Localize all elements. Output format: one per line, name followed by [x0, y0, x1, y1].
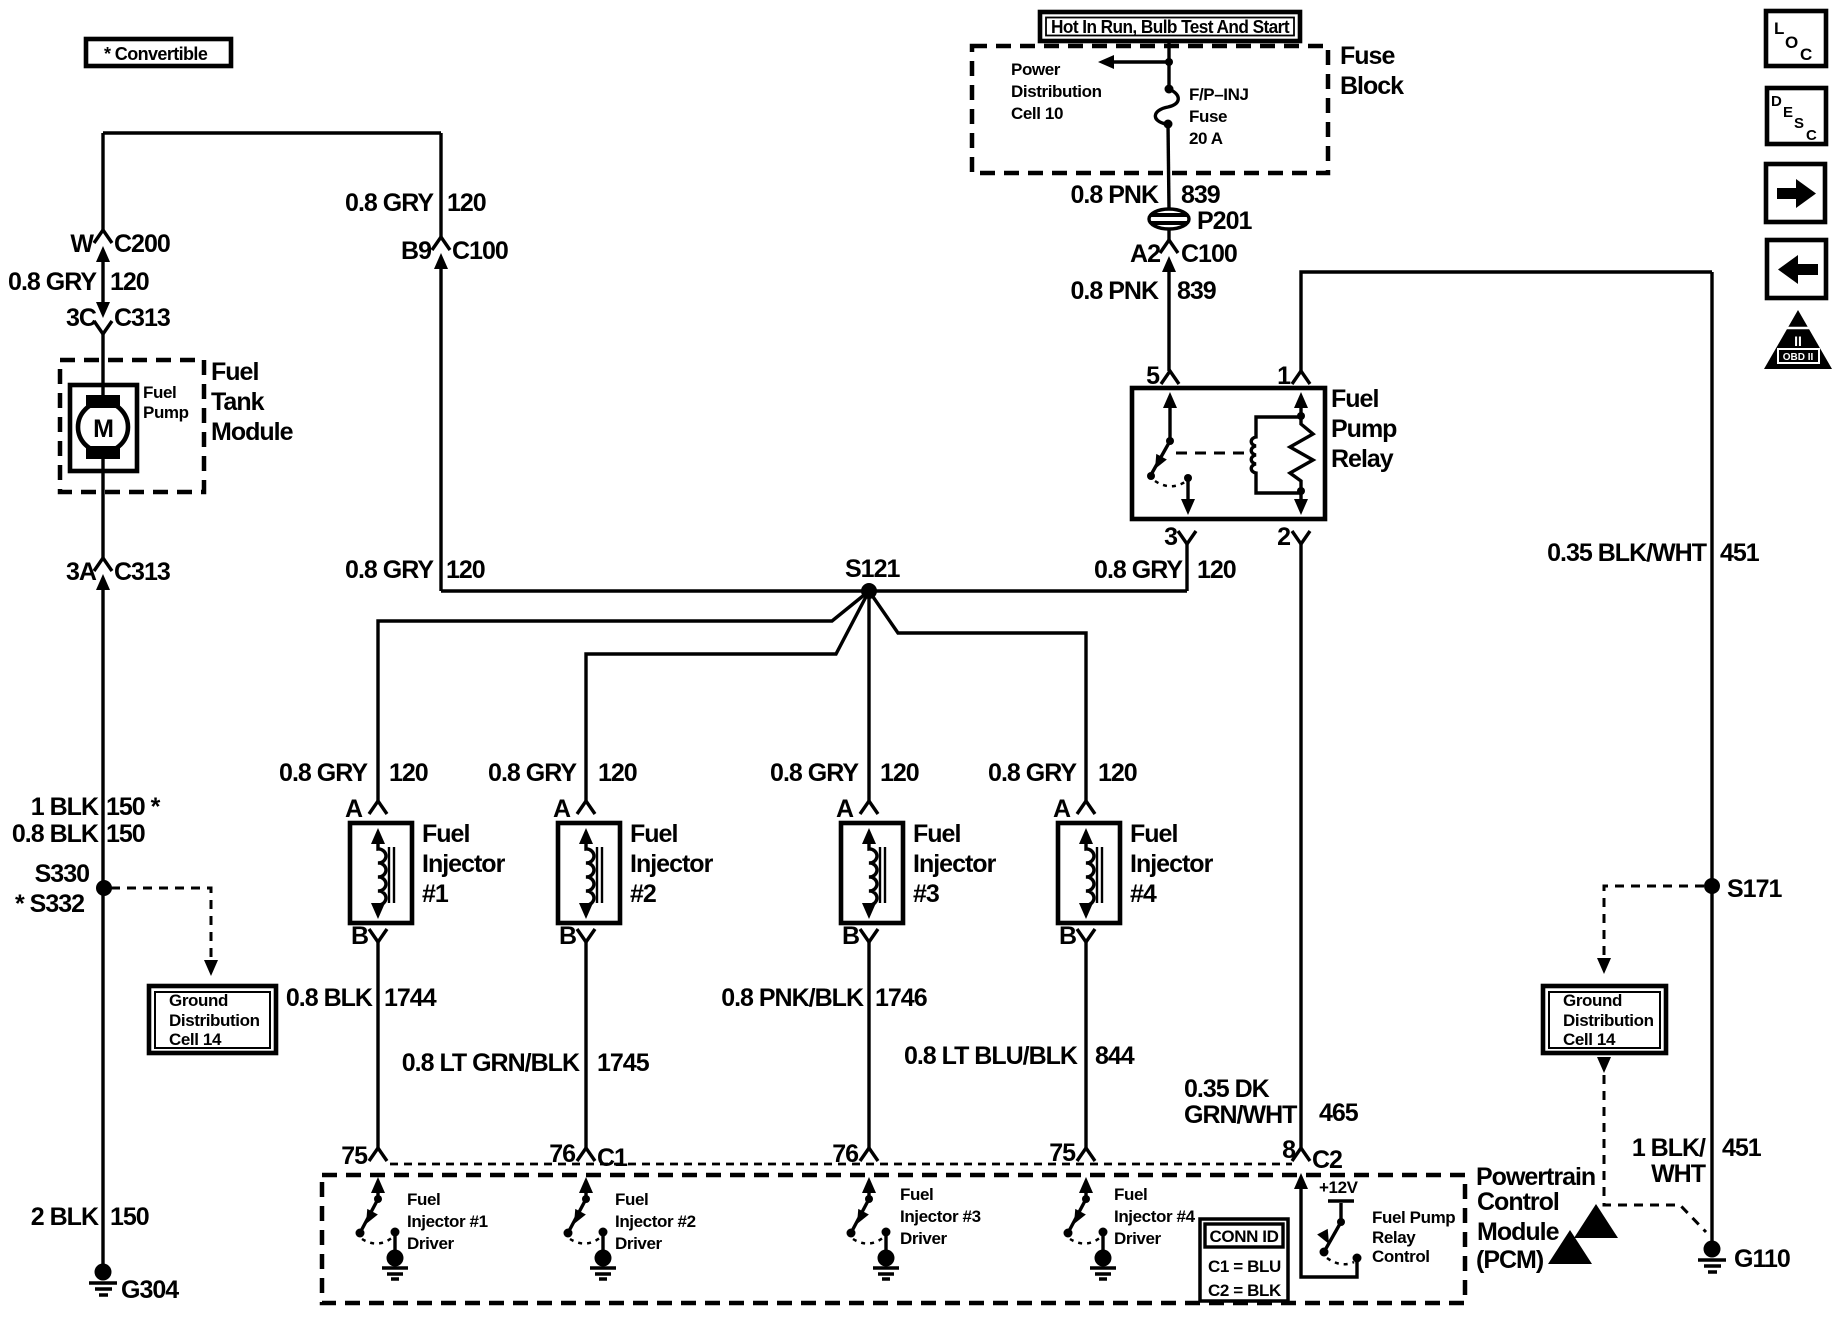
- wire: B9 branch vertical: [439, 133, 442, 237]
- svg-text:0.8 GRY: 0.8 GRY: [8, 268, 97, 296]
- svg-text:Injector: Injector: [913, 850, 997, 878]
- svg-text:E: E: [1783, 104, 1793, 121]
- fuse F/P-INJ 20A: [1155, 85, 1248, 149]
- relay resistor: [1290, 392, 1313, 515]
- nav icon: OBD II triangle: [1764, 310, 1832, 369]
- svg-text:76: 76: [832, 1140, 858, 1168]
- wire: fuse to P201: [1168, 124, 1169, 209]
- wire: injector1 B to PCM pin 75: [376, 942, 379, 1148]
- wire: relay pin1 feed from right loop: [1301, 272, 1712, 371]
- ground distribution cell 14 box (left): [149, 986, 276, 1053]
- splice S121: [845, 555, 900, 599]
- dashed wire ground distribution to G110: [1597, 1057, 1611, 1073]
- svg-text:0.8 LT BLU/BLK: 0.8 LT BLU/BLK: [904, 1042, 1078, 1070]
- svg-text:Driver: Driver: [1114, 1229, 1162, 1248]
- svg-text:0.8 PNK: 0.8 PNK: [1071, 181, 1159, 209]
- relay pin 3: [1164, 523, 1196, 551]
- svg-text:Fuel: Fuel: [1130, 820, 1177, 848]
- svg-text:Distribution: Distribution: [1011, 82, 1102, 101]
- svg-text:Powertrain: Powertrain: [1476, 1163, 1595, 1191]
- wire: right vertical 451: [1710, 272, 1713, 1242]
- relay coil: [1251, 417, 1301, 493]
- svg-text:0.8 PNK/BLK: 0.8 PNK/BLK: [721, 984, 864, 1012]
- connector 3C/C313: [66, 302, 170, 334]
- dashed wire from S330 to ground distribution: [111, 888, 211, 958]
- svg-text:GRN/WHT: GRN/WHT: [1184, 1101, 1297, 1129]
- svg-text:0.8 GRY: 0.8 GRY: [488, 759, 577, 787]
- svg-text:Injector: Injector: [1130, 850, 1214, 878]
- svg-text:Pump: Pump: [143, 403, 189, 422]
- svg-text:Ground: Ground: [169, 991, 228, 1010]
- svg-text:B: B: [842, 922, 859, 950]
- wire: C100 down to relay pin 5: [1167, 272, 1170, 371]
- PCM pin 8/C2: [1282, 1136, 1342, 1174]
- svg-text:0.35 DK: 0.35 DK: [1184, 1075, 1270, 1103]
- svg-text:B: B: [351, 922, 368, 950]
- splice S171: [1704, 875, 1782, 903]
- wire: injector2 B to PCM pin 76/C1: [584, 942, 587, 1148]
- connector W/C200: [70, 230, 169, 262]
- wire: left vertical lower: [101, 590, 104, 1265]
- svg-text:120: 120: [598, 759, 637, 787]
- svg-text:C100: C100: [1181, 240, 1237, 268]
- nav icon: back arrow: [1767, 240, 1826, 298]
- svg-text:F/P–INJ: F/P–INJ: [1189, 85, 1249, 104]
- ESD triangle upper: [1574, 1204, 1618, 1238]
- note box: Convertible: [86, 39, 231, 66]
- svg-text:3C: 3C: [66, 304, 97, 332]
- svg-text:A: A: [345, 795, 363, 823]
- svg-text:3: 3: [1164, 523, 1177, 551]
- svg-text:Module: Module: [211, 418, 294, 446]
- svg-text:* S332: * S332: [15, 890, 84, 918]
- svg-text:#1: #1: [422, 880, 449, 908]
- svg-text:P201: P201: [1197, 207, 1252, 235]
- svg-text:Fuel: Fuel: [615, 1190, 648, 1209]
- svg-text:C100: C100: [452, 237, 508, 265]
- svg-text:Injector: Injector: [422, 850, 506, 878]
- fuse block dashed box: [972, 46, 1328, 173]
- svg-text:B9: B9: [401, 237, 431, 265]
- svg-text:0.8 PNK: 0.8 PNK: [1071, 277, 1159, 305]
- CONN ID legend box: [1200, 1219, 1288, 1301]
- svg-text:0.35 BLK/WHT: 0.35 BLK/WHT: [1547, 539, 1707, 567]
- PCM pin 75 (injector 1): [341, 1142, 387, 1170]
- ESD triangle lower: [1548, 1230, 1592, 1264]
- fuel pump relay control driver: [1294, 1173, 1455, 1277]
- PCM dashed box: [322, 1175, 1465, 1303]
- svg-text:Control: Control: [1477, 1188, 1559, 1216]
- nav icon: LOC box: [1766, 11, 1826, 66]
- fuel pump box: [70, 385, 137, 471]
- fuel pump motor M1: [78, 383, 189, 459]
- svg-text:2 BLK: 2 BLK: [31, 1203, 99, 1231]
- svg-text:Fuel Pump: Fuel Pump: [1372, 1208, 1455, 1227]
- wire: B9 vertical down to S121 run: [439, 269, 442, 591]
- svg-text:S171: S171: [1727, 875, 1782, 903]
- svg-text:B: B: [559, 922, 576, 950]
- svg-text:L: L: [1774, 19, 1784, 38]
- svg-text:Injector #2: Injector #2: [615, 1212, 696, 1231]
- svg-text:Ground: Ground: [1563, 991, 1622, 1010]
- svg-text:Fuse: Fuse: [1340, 42, 1395, 70]
- wire: S121 branch to injector 3: [867, 591, 870, 801]
- wire: S121 branch to injector 4: [869, 591, 1086, 801]
- svg-text:5: 5: [1146, 362, 1160, 390]
- fuel injector #4 driver: [1064, 1177, 1196, 1279]
- svg-text:Distribution: Distribution: [169, 1011, 260, 1030]
- svg-text:#3: #3: [913, 880, 939, 908]
- svg-text:Injector #3: Injector #3: [900, 1207, 981, 1226]
- svg-text:2: 2: [1277, 523, 1290, 551]
- relay pin 5: [1146, 362, 1179, 390]
- connector A2/C100: [1130, 240, 1237, 272]
- svg-text:C313: C313: [114, 304, 170, 332]
- svg-text:WHT: WHT: [1651, 1160, 1706, 1188]
- wire: P201 to C100: [1167, 229, 1170, 240]
- svg-text:A: A: [1053, 795, 1071, 823]
- svg-text:C: C: [1806, 127, 1817, 144]
- svg-text:20 A: 20 A: [1189, 129, 1223, 148]
- svg-text:Relay: Relay: [1331, 445, 1394, 473]
- svg-text:Fuse: Fuse: [1189, 107, 1227, 126]
- svg-text:G304: G304: [121, 1276, 179, 1304]
- svg-text:M: M: [93, 415, 113, 443]
- svg-text:Fuel: Fuel: [143, 383, 176, 402]
- wire: S121 branch to injector 2: [586, 591, 869, 801]
- svg-text:0.8 GRY: 0.8 GRY: [279, 759, 368, 787]
- PCM pin 76/C1 (injector 2): [549, 1140, 628, 1172]
- svg-text:120: 120: [389, 759, 428, 787]
- svg-text:120: 120: [110, 268, 149, 296]
- svg-text:1744: 1744: [384, 984, 437, 1012]
- wire: into fuel tank module: [101, 334, 104, 400]
- svg-text:0.8 GRY: 0.8 GRY: [988, 759, 1077, 787]
- svg-text:150 *: 150 *: [106, 793, 161, 821]
- svg-text:120: 120: [880, 759, 919, 787]
- svg-text:Pump: Pump: [1331, 415, 1397, 443]
- fuel injector #1: [345, 795, 506, 950]
- svg-text:W: W: [70, 230, 94, 258]
- svg-text:0.8 BLK: 0.8 BLK: [286, 984, 373, 1012]
- svg-text:C1 = BLU: C1 = BLU: [1208, 1257, 1281, 1276]
- fuel injector #1 driver: [356, 1177, 488, 1279]
- svg-text:Power: Power: [1011, 60, 1061, 79]
- svg-text:150: 150: [106, 820, 145, 848]
- wire: injector3 B to PCM pin 76: [867, 942, 870, 1148]
- svg-text:C2: C2: [1312, 1146, 1342, 1174]
- wire: from header into fuse block: [1167, 41, 1170, 88]
- fuel injector #2 driver: [564, 1177, 696, 1279]
- svg-text:Cell 10: Cell 10: [1011, 104, 1063, 123]
- svg-text:G110: G110: [1734, 1245, 1790, 1273]
- svg-text:76: 76: [549, 1140, 575, 1168]
- label: Powertrain Control Module (PCM): [1476, 1163, 1595, 1274]
- svg-text:0.8 GRY: 0.8 GRY: [345, 189, 434, 217]
- fuel injector #3: [836, 795, 997, 950]
- svg-text:Block: Block: [1340, 72, 1404, 100]
- svg-text:CONN ID: CONN ID: [1210, 1227, 1279, 1246]
- power distribution feed arrow: [1011, 55, 1173, 123]
- svg-text:#2: #2: [630, 880, 656, 908]
- svg-text:Driver: Driver: [407, 1234, 455, 1253]
- ground G304: [89, 1264, 179, 1305]
- svg-text:150: 150: [110, 1203, 149, 1231]
- nav icon: DESC box: [1767, 88, 1826, 144]
- wire: S121 horizontal run: [441, 589, 1187, 592]
- svg-text:839: 839: [1177, 277, 1216, 305]
- PCM connector face dotted line: [390, 1163, 1292, 1166]
- header box: Hot In Run, Bulb Test And Start: [1040, 12, 1300, 41]
- svg-text:#4: #4: [1130, 880, 1157, 908]
- svg-text:75: 75: [341, 1142, 368, 1170]
- svg-text:(PCM): (PCM): [1476, 1246, 1544, 1274]
- dashed wire S171 to ground distribution (right): [1604, 886, 1704, 956]
- svg-text:Fuel: Fuel: [407, 1190, 440, 1209]
- svg-text:Distribution: Distribution: [1563, 1011, 1654, 1030]
- svg-text:0.8 GRY: 0.8 GRY: [770, 759, 859, 787]
- wire: left vertical between C200 and C313: [101, 262, 104, 302]
- svg-text:C200: C200: [114, 230, 170, 258]
- svg-text:Fuel: Fuel: [913, 820, 960, 848]
- svg-text:839: 839: [1181, 181, 1220, 209]
- svg-text:A: A: [553, 795, 571, 823]
- svg-text:Fuel: Fuel: [1331, 385, 1378, 413]
- wire: left vertical upper: [101, 133, 104, 230]
- svg-text:B: B: [1059, 922, 1076, 950]
- svg-text:120: 120: [446, 556, 485, 584]
- svg-text:Fuel: Fuel: [211, 358, 258, 386]
- wire: S121 branch to injector 1: [378, 591, 869, 801]
- relay coil link dashed: [1176, 452, 1246, 455]
- svg-text:120: 120: [1197, 556, 1236, 584]
- svg-text:0.8 LT GRN/BLK: 0.8 LT GRN/BLK: [402, 1049, 580, 1077]
- svg-text:O: O: [1785, 33, 1798, 52]
- svg-text:A: A: [836, 795, 854, 823]
- svg-text:1: 1: [1277, 362, 1291, 390]
- svg-text:Injector #1: Injector #1: [407, 1212, 488, 1231]
- svg-text:1746: 1746: [875, 984, 927, 1012]
- svg-text:465: 465: [1319, 1099, 1359, 1127]
- relay switch: [1147, 392, 1195, 515]
- svg-text:C313: C313: [114, 558, 170, 586]
- wire: injector4 B to PCM pin 75: [1084, 942, 1087, 1148]
- wire: below fuel tank module: [101, 459, 104, 558]
- svg-text:0.8 GRY: 0.8 GRY: [345, 556, 434, 584]
- svg-text:Hot In Run, Bulb Test And Star: Hot In Run, Bulb Test And Start: [1051, 17, 1290, 37]
- relay pin 2: [1277, 523, 1310, 551]
- svg-text:1745: 1745: [597, 1049, 650, 1077]
- fuel injector #4: [1053, 795, 1214, 950]
- wire: top-left loop horizontal: [103, 131, 441, 134]
- svg-text:Relay: Relay: [1372, 1228, 1416, 1247]
- svg-text:S: S: [1794, 115, 1804, 132]
- svg-text:0.8 GRY: 0.8 GRY: [1094, 556, 1183, 584]
- svg-text:* Convertible: * Convertible: [104, 44, 208, 64]
- svg-text:+12V: +12V: [1319, 1178, 1359, 1197]
- connector 3A/C313: [66, 558, 170, 590]
- wire: relay pin3 down to S121 run: [1185, 544, 1188, 591]
- svg-text:Injector #4: Injector #4: [1114, 1207, 1196, 1226]
- svg-text:C: C: [1800, 45, 1812, 64]
- svg-text:451: 451: [1720, 539, 1760, 567]
- connector B9/C100: [401, 237, 508, 269]
- svg-text:120: 120: [447, 189, 486, 217]
- fuel injector #2: [553, 795, 714, 950]
- svg-text:Fuel: Fuel: [900, 1185, 933, 1204]
- svg-text:C1: C1: [597, 1144, 628, 1172]
- svg-text:1 BLK: 1 BLK: [31, 793, 99, 821]
- svg-text:C2 = BLK: C2 = BLK: [1208, 1281, 1282, 1300]
- svg-text:1 BLK/: 1 BLK/: [1632, 1134, 1706, 1162]
- svg-text:Cell 14: Cell 14: [169, 1030, 222, 1049]
- nav icon: forward arrow: [1766, 164, 1825, 222]
- svg-text:844: 844: [1095, 1042, 1135, 1070]
- svg-text:S121: S121: [845, 555, 900, 583]
- svg-text:OBD II: OBD II: [1783, 352, 1814, 363]
- PCM pin 76 (injector 3): [832, 1140, 878, 1168]
- svg-text:Driver: Driver: [615, 1234, 663, 1253]
- svg-text:451: 451: [1722, 1134, 1762, 1162]
- svg-text:75: 75: [1049, 1139, 1076, 1167]
- relay pin 1: [1277, 362, 1310, 390]
- PCM pin 75 (injector 4): [1049, 1139, 1095, 1167]
- fuel injector #3 driver: [847, 1177, 981, 1279]
- svg-text:Module: Module: [1477, 1218, 1560, 1246]
- svg-text:Injector: Injector: [630, 850, 714, 878]
- fuel pump relay box K1: [1132, 388, 1325, 519]
- fuel tank module dashed box: [60, 360, 204, 492]
- svg-text:Fuel: Fuel: [1114, 1185, 1147, 1204]
- svg-text:Fuel: Fuel: [422, 820, 469, 848]
- svg-text:120: 120: [1098, 759, 1137, 787]
- wire: relay pin2 down to PCM pin 8: [1299, 544, 1302, 1148]
- grommet P201: [1149, 207, 1252, 235]
- svg-text:A2: A2: [1130, 240, 1160, 268]
- svg-text:Control: Control: [1372, 1247, 1430, 1266]
- svg-text:Cell 14: Cell 14: [1563, 1030, 1616, 1049]
- svg-text:D: D: [1771, 93, 1782, 110]
- ground G110: [1698, 1241, 1790, 1274]
- svg-text:Fuel: Fuel: [630, 820, 677, 848]
- svg-text:S330: S330: [35, 860, 89, 888]
- svg-text:Tank: Tank: [211, 388, 265, 416]
- svg-text:II: II: [1794, 333, 1802, 349]
- svg-text:Driver: Driver: [900, 1229, 948, 1248]
- svg-text:0.8 BLK: 0.8 BLK: [12, 820, 99, 848]
- ground distribution cell 14 box (right): [1543, 986, 1666, 1053]
- splice S330/S332: [15, 860, 112, 918]
- svg-text:3A: 3A: [66, 558, 97, 586]
